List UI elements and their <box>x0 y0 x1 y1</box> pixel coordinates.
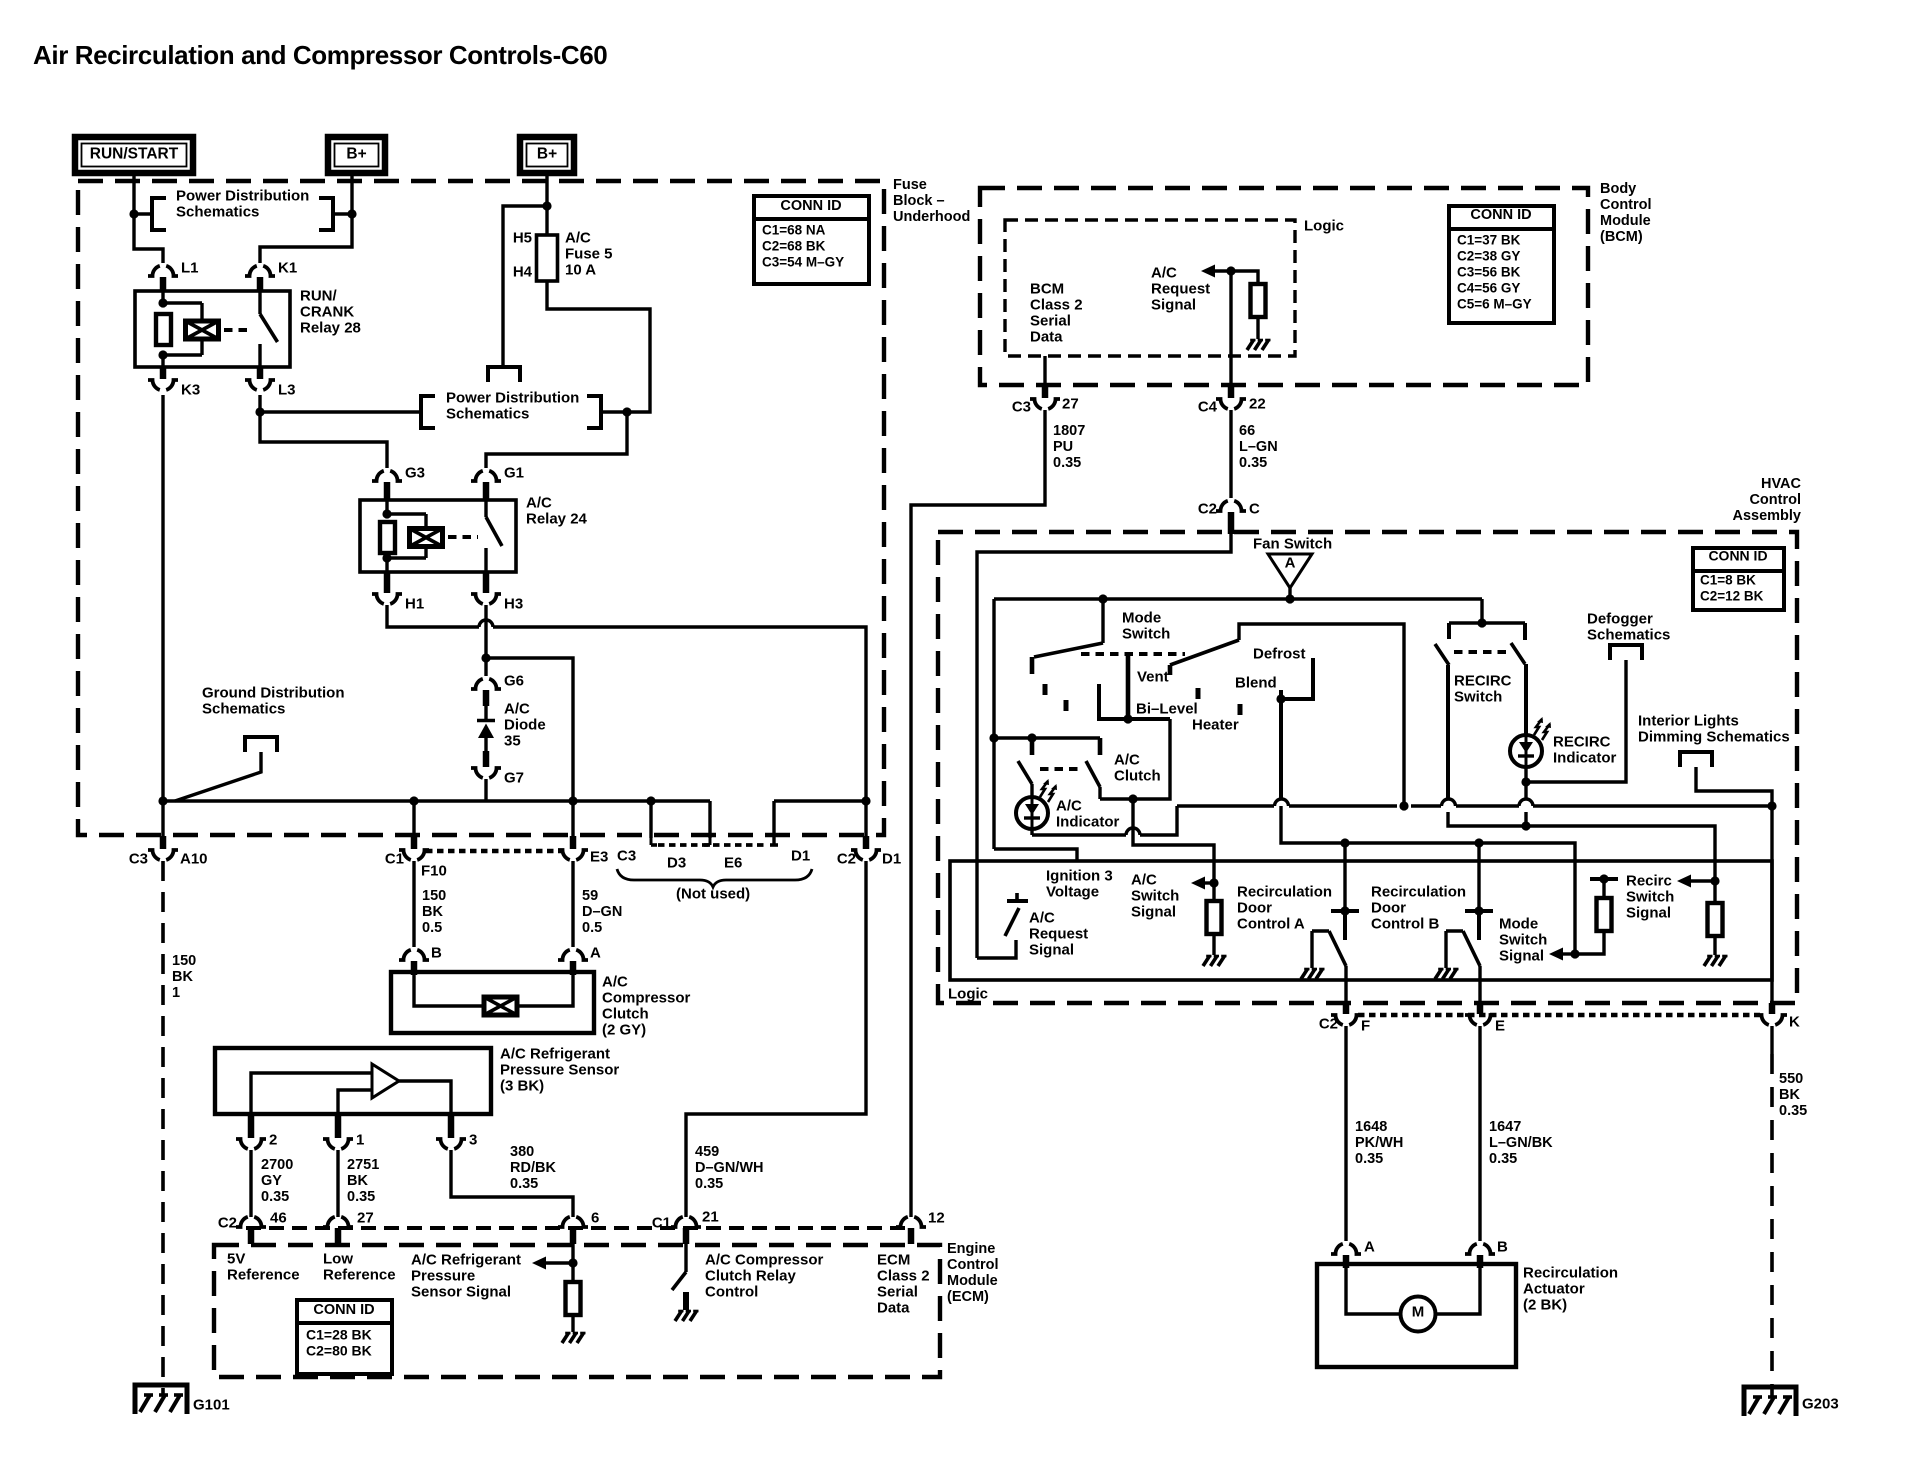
svg-text:C1=68 NA: C1=68 NA <box>762 222 826 237</box>
junction bus at A10 wire <box>158 796 167 805</box>
junction A/C clutch output <box>1128 794 1137 803</box>
fuse block CONN ID table <box>754 196 869 284</box>
svg-text:(BCM): (BCM) <box>1600 229 1643 245</box>
svg-text:Mode: Mode <box>1122 609 1161 626</box>
svg-text:A/C: A/C <box>1029 909 1055 926</box>
wire control B to connector E <box>1478 966 1481 1014</box>
junction bus mode common2 <box>1399 801 1408 810</box>
relay 28 coil loop wiring <box>163 291 202 367</box>
svg-text:0.35: 0.35 <box>261 1189 289 1205</box>
label Low Reference <box>323 1250 396 1283</box>
relay 28 coil junction top <box>158 298 167 307</box>
label 5V Reference <box>227 1250 300 1283</box>
svg-text:Signal: Signal <box>1499 947 1544 964</box>
power feed B+ (left) <box>328 137 385 173</box>
wire label 459 D-GN/WH 0.35 <box>695 1144 763 1192</box>
svg-text:CONN ID: CONN ID <box>780 198 841 214</box>
svg-text:Serial: Serial <box>1030 312 1071 329</box>
svg-text:0.35: 0.35 <box>1355 1151 1383 1167</box>
svg-text:E6: E6 <box>724 854 742 871</box>
svg-text:Clutch: Clutch <box>1114 767 1161 784</box>
blend contact wire <box>1279 690 1283 799</box>
stub below G3 <box>384 482 391 500</box>
svg-text:2: 2 <box>269 1131 277 1148</box>
svg-text:Schematics: Schematics <box>202 700 285 717</box>
svg-text:E: E <box>1495 1017 1505 1034</box>
dotted line D3 to D1 <box>658 843 768 847</box>
svg-text:0.5: 0.5 <box>422 920 442 936</box>
svg-text:H5: H5 <box>513 229 532 246</box>
svg-text:A/C: A/C <box>526 494 552 511</box>
dotted connector line F-E-K <box>1358 1013 1760 1018</box>
connector K3 <box>148 367 200 398</box>
svg-text:H3: H3 <box>504 595 523 612</box>
riser control B <box>1477 843 1480 911</box>
svg-text:G6: G6 <box>504 672 524 689</box>
arrow A/C request signal <box>1201 265 1233 278</box>
BCM CONN ID table <box>1449 206 1554 323</box>
svg-text:Recirculation: Recirculation <box>1523 1264 1618 1281</box>
svg-text:35: 35 <box>504 732 521 749</box>
svg-text:RECIRC: RECIRC <box>1553 733 1611 750</box>
svg-text:F10: F10 <box>421 862 447 879</box>
arrow recirc switch signal <box>1677 875 1715 888</box>
connector C2 C <box>1198 500 1260 517</box>
svg-text:Reference: Reference <box>323 1266 396 1283</box>
svg-text:380: 380 <box>510 1144 534 1160</box>
wire label 380 RD/BK 0.35 <box>510 1144 556 1192</box>
svg-text:Diode: Diode <box>504 716 546 733</box>
svg-text:Sensor Signal: Sensor Signal <box>411 1283 511 1300</box>
junction A/C indicator stub <box>1027 733 1036 742</box>
svg-text:GY: GY <box>261 1173 282 1189</box>
svg-text:1: 1 <box>356 1131 364 1148</box>
label BCM Class 2 Serial Data <box>1030 280 1083 345</box>
connector A (actuator) <box>1331 1238 1375 1255</box>
svg-text:Control: Control <box>1600 197 1652 213</box>
connector C2 F <box>1319 1015 1370 1034</box>
relay RUN/CRANK Relay 28 box <box>135 291 290 367</box>
defrost contact wire <box>1281 658 1313 699</box>
svg-text:10 A: 10 A <box>565 261 596 278</box>
svg-text:K1: K1 <box>278 259 297 276</box>
svg-text:CRANK: CRANK <box>300 303 354 320</box>
svg-text:RUN/START: RUN/START <box>90 145 179 162</box>
svg-text:C3: C3 <box>129 850 148 867</box>
stub below C2/C <box>1228 512 1235 534</box>
svg-text:0.35: 0.35 <box>510 1176 538 1192</box>
label RUN/CRANK Relay 28 <box>300 287 361 336</box>
wire RECIRC indicator to signal line <box>1524 782 1527 826</box>
svg-text:C1: C1 <box>385 850 404 867</box>
svg-text:C2: C2 <box>218 1214 237 1231</box>
svg-text:46: 46 <box>270 1209 287 1226</box>
power feed RUN/START <box>75 137 193 173</box>
svg-text:C1=28 BK: C1=28 BK <box>306 1327 372 1343</box>
stub below G6 <box>483 690 490 706</box>
svg-text:A/C Compressor: A/C Compressor <box>705 1251 824 1268</box>
connector G1 <box>471 464 524 481</box>
svg-text:RUN/: RUN/ <box>300 287 337 304</box>
svg-text:(2 BK): (2 BK) <box>1523 1296 1567 1313</box>
clutch internal wiring <box>414 972 573 1006</box>
svg-text:A/C Refrigerant: A/C Refrigerant <box>500 1045 610 1062</box>
svg-text:A/C: A/C <box>1056 797 1082 814</box>
label A/C Clutch <box>1114 751 1161 784</box>
stub above K <box>1769 1003 1776 1014</box>
wire label 550 BK 0.35 <box>1779 1071 1807 1119</box>
wire fan switch to bus <box>1288 588 1291 599</box>
stub below B <box>411 961 418 975</box>
svg-text:C3: C3 <box>617 847 636 864</box>
label Mode Switch Signal <box>1499 915 1547 964</box>
svg-text:Door: Door <box>1371 899 1406 916</box>
stub above connector E3 <box>570 836 577 849</box>
svg-text:5V: 5V <box>227 1250 245 1267</box>
HVAC CONN ID table <box>1693 548 1784 610</box>
svg-text:Switch: Switch <box>1122 625 1170 642</box>
svg-text:M: M <box>1412 1303 1425 1320</box>
arrow A/C switch signal <box>1191 877 1214 890</box>
junction H3/diode <box>481 653 490 662</box>
label Blend <box>1235 674 1277 691</box>
svg-text:Pressure Sensor: Pressure Sensor <box>500 1061 619 1078</box>
wire label 66 L-GN 0.35 <box>1239 423 1278 471</box>
A/C clutch switch blade right <box>1086 761 1100 787</box>
label ECM Class 2 Serial Data <box>877 1251 930 1316</box>
svg-text:0.35: 0.35 <box>1489 1151 1517 1167</box>
svg-text:Voltage: Voltage <box>1046 883 1099 900</box>
label Recirc Switch Signal <box>1626 872 1674 921</box>
label A/C Request Signal (BCM) <box>1151 264 1210 313</box>
wire label 1647 L-GN/BK 0.35 <box>1489 1119 1553 1167</box>
wire vent net to A/C clutch switch <box>1100 719 1170 799</box>
recirc switch signal resistor <box>1708 881 1723 936</box>
wire D1 branch segment <box>770 801 862 845</box>
mode switch blade 2 <box>1170 640 1239 675</box>
mode switch contact stub <box>1030 657 1035 674</box>
svg-text:(3 BK): (3 BK) <box>500 1077 544 1094</box>
svg-text:D1: D1 <box>791 847 810 864</box>
svg-text:Request: Request <box>1029 925 1088 942</box>
junction control A riser <box>1340 838 1349 847</box>
power distribution schematics reference (upper) <box>134 187 352 230</box>
svg-text:Control: Control <box>705 1283 758 1300</box>
svg-text:Blend: Blend <box>1235 674 1277 691</box>
relay 28 actuating dashed link <box>224 328 252 332</box>
wire RUN/START to L1 <box>134 173 163 263</box>
sensor amplifier triangle <box>372 1064 399 1098</box>
recirculation actuator box <box>1317 1264 1516 1367</box>
svg-text:(ECM): (ECM) <box>947 1289 989 1305</box>
svg-text:1807: 1807 <box>1053 423 1085 439</box>
RECIRC switch dashed link <box>1454 650 1511 654</box>
svg-text:C2: C2 <box>1319 1015 1338 1032</box>
brace (Not used) <box>617 869 812 902</box>
label HVAC Control Assembly <box>1732 476 1801 524</box>
junction RECIRC feed <box>1477 618 1486 627</box>
svg-text:Relay 28: Relay 28 <box>300 319 361 336</box>
svg-text:Air Recirculation and Compress: Air Recirculation and Compressor Control… <box>33 40 607 70</box>
sensor pin stubs <box>251 1114 451 1138</box>
actuator motor M <box>1401 1297 1436 1332</box>
label Ignition 3 Voltage <box>1046 867 1113 900</box>
svg-text:Power Distribution: Power Distribution <box>446 389 579 406</box>
wire A/C indicator return <box>1032 806 1177 835</box>
connector L3 <box>245 367 296 398</box>
wire pin1 to ECM 27 <box>336 1150 339 1217</box>
label Recirculation Door Control B <box>1371 883 1466 932</box>
connector pin 1 <box>323 1131 364 1149</box>
wire to defogger schematics <box>1526 660 1626 782</box>
junction A/C clutch feed <box>989 733 998 742</box>
relay 24 coil junction top <box>382 509 391 518</box>
A/C refrigerant pressure sensor box <box>215 1048 491 1114</box>
wire blend net to control A/B <box>1281 806 1575 954</box>
svg-text:C2: C2 <box>837 850 856 867</box>
wire label 2751 BK 0.35 <box>347 1157 379 1205</box>
svg-text:0.35: 0.35 <box>1779 1103 1807 1119</box>
connector A <box>558 944 601 961</box>
wire H1-net to ECM not... 459 wire <box>0 0 1 1</box>
label A/C Relay 24 <box>526 494 588 527</box>
svg-text:Schematics: Schematics <box>1587 626 1670 643</box>
svg-text:A/C: A/C <box>1151 264 1177 281</box>
svg-text:C: C <box>1249 500 1260 517</box>
svg-text:Dimming Schematics: Dimming Schematics <box>1638 728 1790 745</box>
mode switch position mark 4 <box>1238 704 1243 715</box>
svg-text:Vent: Vent <box>1137 668 1169 685</box>
svg-text:2751: 2751 <box>347 1157 379 1173</box>
svg-text:Signal: Signal <box>1151 296 1196 313</box>
ECM sensor signal resistor <box>566 1282 581 1315</box>
svg-text:Switch: Switch <box>1499 931 1547 948</box>
svg-text:C2=80 BK: C2=80 BK <box>306 1343 372 1359</box>
svg-text:G1: G1 <box>504 464 524 481</box>
svg-text:CONN ID: CONN ID <box>313 1302 374 1318</box>
connector E <box>1465 1015 1505 1034</box>
label RECIRC Indicator <box>1553 733 1617 766</box>
wire A10 to G101 (dashed) <box>161 861 165 1396</box>
label Recirculation Actuator (2 BK) <box>1523 1264 1618 1313</box>
connector G6 <box>471 658 524 689</box>
svg-text:Control: Control <box>947 1257 999 1273</box>
svg-text:Fuse 5: Fuse 5 <box>565 245 613 262</box>
stub above connector F10 <box>411 836 418 849</box>
svg-text:E3: E3 <box>590 848 608 865</box>
interior lights connector bracket <box>1680 752 1712 767</box>
label A/C Diode 35 <box>504 700 546 749</box>
svg-text:C4=56 GY: C4=56 GY <box>1457 280 1520 295</box>
LED RECIRC indicator <box>1510 717 1551 767</box>
clutch relay control ground <box>675 1311 699 1321</box>
stub below B <box>1477 1255 1484 1268</box>
wire pin2 to ECM 46 <box>249 1150 252 1217</box>
junction on L3 wire <box>255 407 264 416</box>
mode switch signal resistor chain <box>1575 874 1618 954</box>
connector G7 <box>471 768 524 786</box>
svg-text:H1: H1 <box>405 595 424 612</box>
junction control B riser <box>1474 838 1483 847</box>
junction on RUN/START wire <box>129 209 138 218</box>
connector C4 22 <box>1198 386 1266 415</box>
actuator internal wiring <box>1346 1264 1480 1314</box>
svg-text:Power Distribution: Power Distribution <box>176 187 309 204</box>
connector C2 D1 <box>837 850 901 867</box>
svg-text:Heater: Heater <box>1192 716 1239 733</box>
svg-text:Logic: Logic <box>1304 217 1344 234</box>
connector 6 <box>558 1209 599 1244</box>
svg-text:Recirc: Recirc <box>1626 872 1672 889</box>
A/C switch signal resistor <box>1207 883 1222 934</box>
BCM logic dashed box <box>1005 220 1295 356</box>
svg-text:Request: Request <box>1151 280 1210 297</box>
svg-text:Schematics: Schematics <box>446 405 529 422</box>
svg-text:Switch: Switch <box>1454 688 1502 705</box>
svg-text:Serial: Serial <box>877 1283 918 1300</box>
junction on B+ wire <box>347 209 356 218</box>
svg-text:0.35: 0.35 <box>1239 455 1267 471</box>
wire ignition 3 voltage input <box>994 849 1077 861</box>
RECIRC contact 1 below bus <box>1448 812 1715 881</box>
svg-text:A/C Refrigerant: A/C Refrigerant <box>411 1251 521 1268</box>
svg-text:PU: PU <box>1053 439 1073 455</box>
label Engine Control Module (ECM) <box>947 1241 999 1305</box>
wire C4 to C2/C <box>1229 410 1232 498</box>
svg-text:Control B: Control B <box>1371 915 1439 932</box>
ground distribution connector bracket <box>245 737 277 752</box>
svg-text:Assembly: Assembly <box>1732 508 1801 524</box>
not used stub D3 <box>651 801 657 845</box>
control A switch <box>1312 906 1359 968</box>
svg-text:Underhood: Underhood <box>893 209 970 225</box>
svg-text:Door: Door <box>1237 899 1272 916</box>
junction vent/bi-level <box>1123 714 1132 723</box>
label A/C Compressor Clutch (2 GY) <box>602 973 691 1038</box>
svg-text:A: A <box>1364 1238 1375 1255</box>
svg-text:0.35: 0.35 <box>1053 455 1081 471</box>
svg-text:L3: L3 <box>278 381 296 398</box>
svg-text:H4: H4 <box>513 263 533 280</box>
junction bus at D3 stub <box>646 796 655 805</box>
mode switch position mark 1 <box>1043 684 1048 695</box>
label Fuse Block - Underhood <box>893 177 970 225</box>
svg-text:27: 27 <box>357 1209 374 1226</box>
svg-text:(Not used): (Not used) <box>676 885 750 902</box>
relay 24 coil loop wiring <box>387 500 426 572</box>
HVAC logic box <box>950 861 1772 980</box>
svg-text:ECM: ECM <box>877 1251 910 1268</box>
connector C3 A10 <box>129 850 208 867</box>
svg-text:CONN ID: CONN ID <box>1470 207 1531 223</box>
svg-text:G3: G3 <box>405 464 425 481</box>
svg-text:Body: Body <box>1600 181 1636 197</box>
relay A/C Relay 24 box <box>360 500 516 572</box>
wire label 2700 GY 0.35 <box>261 1157 293 1205</box>
label RECIRC Switch <box>1454 672 1512 705</box>
svg-text:CONN ID: CONN ID <box>1708 548 1767 564</box>
svg-text:C2=12 BK: C2=12 BK <box>1700 588 1764 603</box>
svg-text:Module: Module <box>947 1273 998 1289</box>
svg-text:0.5: 0.5 <box>582 920 602 936</box>
svg-text:Module: Module <box>1600 213 1651 229</box>
relay 24 switch <box>486 500 502 572</box>
arrow A/C refrigerant pressure sensor signal <box>532 1257 573 1270</box>
RECIRC switch blade right <box>1511 643 1525 664</box>
arrow mode switch signal <box>1549 948 1575 961</box>
RECIRC switch blade left <box>1435 644 1449 665</box>
svg-text:A10: A10 <box>180 850 208 867</box>
svg-text:C5=6 M–GY: C5=6 M–GY <box>1457 296 1532 311</box>
connector G3 <box>372 464 425 481</box>
relay 24 coil junction bottom <box>382 553 391 562</box>
svg-text:Class 2: Class 2 <box>1030 296 1083 313</box>
label Body Control Module (BCM) <box>1600 181 1652 245</box>
ground G101 <box>135 1385 230 1414</box>
relay 24 resistor <box>380 522 395 553</box>
svg-text:Recirculation: Recirculation <box>1371 883 1466 900</box>
svg-text:Clutch Relay: Clutch Relay <box>705 1267 797 1284</box>
wire F10 to clutch B <box>412 861 415 947</box>
control B ground <box>1435 969 1459 979</box>
svg-text:Clutch: Clutch <box>602 1005 649 1022</box>
svg-text:A/C: A/C <box>504 700 530 717</box>
label Mode Switch <box>1122 609 1170 642</box>
svg-text:Signal: Signal <box>1029 941 1074 958</box>
mode switch common wire <box>1101 599 1104 643</box>
svg-text:A/C: A/C <box>1114 751 1140 768</box>
label A/C Compressor Clutch Relay Control <box>705 1251 824 1300</box>
mode switch common 2 wire <box>1239 624 1404 806</box>
HVAC control assembly dashed box <box>938 532 1797 1003</box>
junction H1 wire at ground bus <box>861 796 870 805</box>
svg-text:Data: Data <box>1030 328 1063 345</box>
svg-text:Signal: Signal <box>1131 903 1176 920</box>
svg-text:Relay 24: Relay 24 <box>526 510 588 527</box>
wire H3 down <box>484 605 487 658</box>
junction bus at F10 <box>409 796 418 805</box>
junction blend/defrost <box>1276 694 1285 703</box>
svg-text:0.35: 0.35 <box>347 1189 375 1205</box>
A/C clutch switch blade left <box>1018 761 1032 784</box>
svg-text:Low: Low <box>323 1250 353 1267</box>
label Defrost <box>1253 645 1306 662</box>
svg-text:550: 550 <box>1779 1071 1803 1087</box>
svg-text:Fan Switch: Fan Switch <box>1253 535 1332 552</box>
svg-text:G7: G7 <box>504 769 524 786</box>
connector pin 3 <box>436 1131 477 1149</box>
svg-text:D1: D1 <box>882 850 901 867</box>
svg-text:A/C: A/C <box>565 229 591 246</box>
RECIRC contact 1 wire <box>1446 665 1450 799</box>
svg-text:BK: BK <box>1779 1087 1800 1103</box>
ground bus in fuse block <box>163 801 710 845</box>
mode switch position mark 3 <box>1196 688 1201 699</box>
connector C1 F10 <box>385 850 447 879</box>
svg-text:B: B <box>1497 1238 1508 1255</box>
mode switch blade 1 <box>1034 643 1103 657</box>
connector 12 <box>896 1209 945 1244</box>
wire B+ right down to fuse <box>545 173 548 235</box>
svg-text:1648: 1648 <box>1355 1119 1387 1135</box>
stub below L1 <box>160 277 167 291</box>
wire control A to connector F <box>1344 966 1347 1014</box>
power feed B+ (right) <box>520 137 574 173</box>
svg-text:(2 GY): (2 GY) <box>602 1021 646 1038</box>
svg-text:Compressor: Compressor <box>602 989 691 1006</box>
svg-text:Pressure: Pressure <box>411 1267 475 1284</box>
svg-text:Control: Control <box>1749 492 1801 508</box>
